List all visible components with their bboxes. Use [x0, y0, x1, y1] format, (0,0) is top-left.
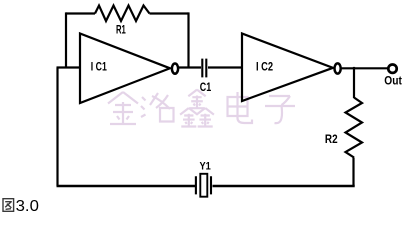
wire: IC1 output to C1	[178, 66, 201, 68]
wire: R2 top lead	[353, 67, 355, 98]
wire: feedback left vertical	[65, 12, 67, 67]
svg-text:R1: R1	[116, 25, 126, 37]
crystal Y1 plates	[196, 176, 211, 194]
wire: feedback right vertical	[187, 12, 189, 67]
wire: left rail	[56, 68, 58, 187]
resistor R2	[346, 98, 363, 158]
output terminal Out	[388, 65, 396, 73]
caption 图3.0	[3, 198, 39, 215]
svg-text:Y1: Y1	[200, 161, 211, 173]
inverter IC1	[80, 34, 170, 104]
wire: IC2 output to Out terminal	[342, 67, 389, 69]
wire: bottom rail right of Y1	[213, 185, 355, 188]
svg-text:R2: R2	[325, 134, 338, 146]
svg-text:C1: C1	[200, 82, 212, 94]
svg-text:I C2: I C2	[256, 62, 273, 74]
IC1 output bubble	[172, 64, 178, 74]
resistor R1	[95, 6, 150, 22]
wire: bottom rail left of Y1	[57, 185, 196, 188]
capacitor C1	[202, 59, 206, 78]
wire: R1 left lead from feedback corner	[66, 12, 95, 14]
watermark 金洛鑫电子	[108, 90, 295, 127]
svg-text:Out: Out	[384, 75, 402, 87]
svg-text:I C1: I C1	[91, 62, 107, 74]
inverter IC2	[242, 34, 333, 102]
IC2 output bubble	[335, 63, 341, 73]
crystal Y1 body	[200, 174, 207, 197]
wire: C1 to IC2 input	[208, 66, 242, 68]
wire: R2 bottom lead	[352, 158, 354, 187]
svg-text:3.0: 3.0	[16, 198, 39, 215]
wire: IC1 input	[57, 66, 81, 68]
wire: R1 right lead	[150, 12, 189, 14]
